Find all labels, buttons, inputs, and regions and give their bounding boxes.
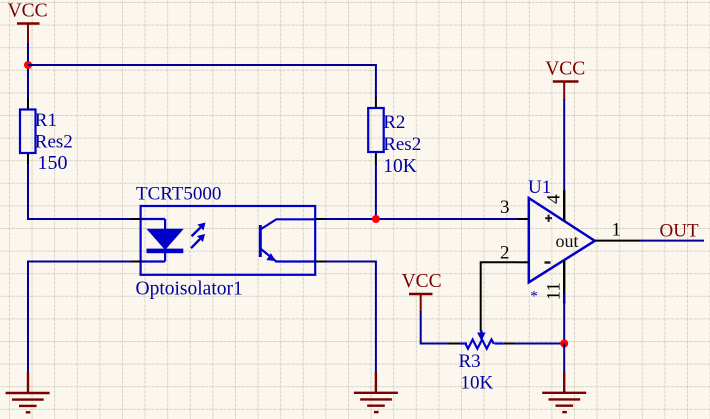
power port VCC (left) [8, 1, 48, 44]
LED emission arrow 2 [191, 234, 205, 248]
wire R3 to junction [515, 343, 564, 345]
junction node collector/R2/pin3 [372, 215, 380, 223]
op-amp U1 [500, 177, 641, 305]
svg-text:10K: 10K [383, 156, 417, 177]
plus marker [545, 215, 552, 222]
LED of optoisolator [141, 219, 183, 262]
pin 1 anode [131, 218, 142, 220]
svg-text:3: 3 [500, 197, 510, 218]
wire R2 to node [375, 164, 377, 219]
wire VCC to R1 [27, 43, 29, 99]
pin 11 stub [563, 260, 565, 303]
wire emitter to ground [326, 262, 376, 373]
wire collector node to op-amp pin 3 [326, 218, 518, 220]
wire top rail to R2 [28, 64, 376, 66]
ground GND2 (middle) [354, 372, 398, 413]
svg-text:Res2: Res2 [35, 132, 73, 153]
pin 2 cathode [131, 261, 142, 263]
junction node on VCC rail [24, 61, 32, 69]
wire junction to ground [563, 344, 565, 373]
resistor R2 [368, 97, 421, 177]
svg-text:VCC: VCC [402, 271, 442, 292]
wire VCC to R3 [421, 311, 449, 344]
power port VCC (op-amp) [545, 58, 585, 100]
svg-text:R3: R3 [459, 351, 481, 372]
svg-text:out: out [556, 231, 579, 251]
pin 4 collector [315, 218, 326, 220]
pin 3 emitter [315, 261, 326, 263]
phototransistor of optoisolator [260, 219, 315, 261]
svg-text:OUT: OUT [660, 220, 699, 241]
wiper arrow [477, 331, 486, 341]
junction node R3/pin11/ground [560, 340, 568, 348]
pin 2 stub [518, 261, 529, 263]
svg-text:Optoisolator1: Optoisolator1 [136, 278, 243, 299]
svg-text:R2: R2 [383, 112, 405, 133]
wire rail to R2 [375, 64, 377, 98]
wire op-amp pin 11 to junction [563, 294, 565, 344]
svg-text:*: * [530, 289, 538, 305]
wire output to OUT [640, 240, 704, 242]
wire VCC to op-amp pin 4 [563, 99, 565, 190]
ground GND3 (right) [542, 372, 586, 413]
svg-text:TCRT5000: TCRT5000 [136, 184, 221, 205]
svg-text:150: 150 [38, 152, 68, 174]
optoisolator TCRT5000 [131, 184, 327, 300]
svg-text:11: 11 [544, 282, 565, 300]
power port VCC (R3) [402, 271, 442, 312]
ground GND1 (left) [6, 372, 50, 413]
pin 3 stub [518, 218, 529, 220]
resistor R1 [20, 98, 73, 174]
svg-text:Res2: Res2 [383, 134, 421, 155]
pin 1 output stub [595, 240, 641, 242]
svg-text:VCC: VCC [8, 1, 48, 22]
wire op-amp pin 2 to R3 wiper [481, 262, 518, 331]
svg-text:2: 2 [500, 243, 510, 264]
wire optoisolator cathode to ground [28, 262, 131, 373]
svg-text:1: 1 [612, 220, 622, 241]
svg-text:VCC: VCC [545, 58, 585, 79]
svg-text:4: 4 [543, 194, 564, 204]
svg-text:10K: 10K [461, 373, 494, 394]
minus marker [545, 261, 551, 263]
pin 4 stub [563, 190, 565, 221]
svg-text:R1: R1 [35, 110, 57, 131]
wire R1 to optoisolator anode [28, 164, 131, 219]
potentiometer R3 [448, 331, 515, 394]
LED emission arrow 1 [192, 223, 206, 237]
